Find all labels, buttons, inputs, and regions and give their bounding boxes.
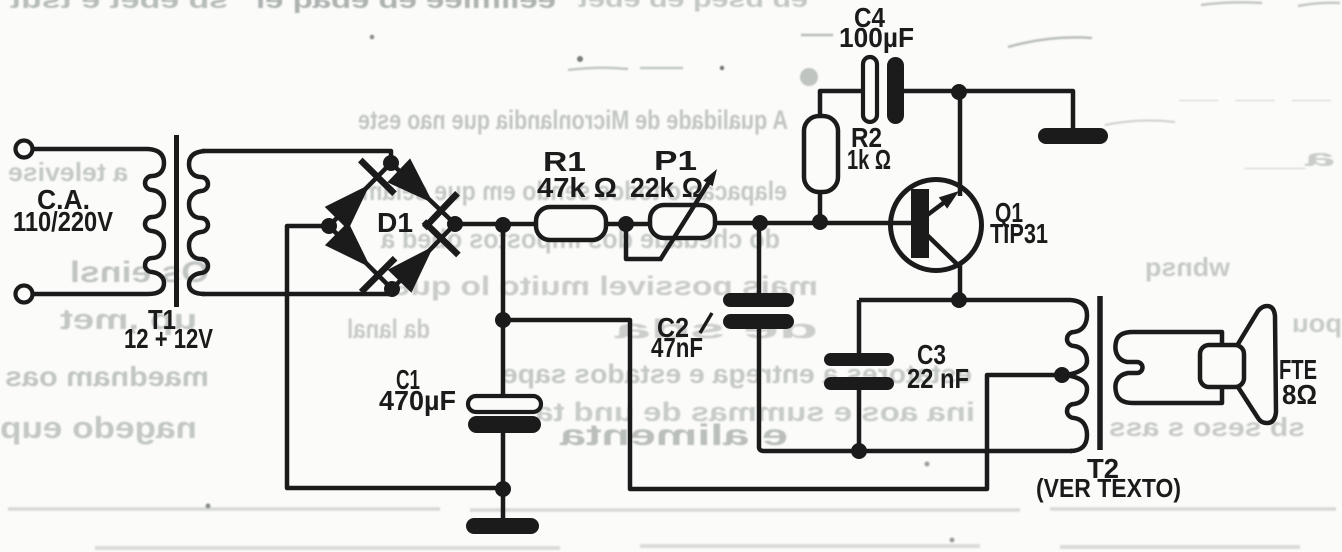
node: junction C4 / Q1 collector — [951, 84, 967, 100]
wire: R2 top lead — [820, 91, 863, 116]
node: junction C2 top — [752, 215, 768, 231]
svg-text:47nF: 47nF — [651, 332, 703, 363]
capacitor C1 plate - (solid) — [468, 416, 541, 433]
wire: T1 secondary winding — [189, 151, 208, 294]
resistor R1 body — [536, 207, 606, 240]
wire: C3 top lead — [857, 300, 862, 354]
wire: main line R1 to P1 — [605, 222, 652, 227]
svg-text:estatores a entrega e estados: estatores a entrega e estados sape — [502, 359, 972, 389]
wire: T1 secondary top to bridge top — [202, 151, 391, 160]
wire: Q1 lower lead to T2 — [958, 265, 963, 300]
svg-text:maednam oas: maednam oas — [5, 361, 209, 392]
node: junction R1/P1 wiper — [618, 216, 634, 232]
capacitor C3 plate bottom — [824, 377, 894, 390]
node: junction C3 / bottom rail — [851, 443, 867, 459]
node: T2 primary center tap — [1054, 367, 1070, 383]
wire: P1 wiper connection — [626, 224, 662, 259]
wire: C2 bottom lead + bottom rail to T2 — [759, 328, 1072, 451]
node: bridge left vertex — [321, 218, 337, 234]
svg-text:nagedo eup: nagedo eup — [0, 410, 197, 445]
transformer T2 secondary winding + leads — [1115, 332, 1222, 403]
svg-text:a televise: a televise — [8, 157, 128, 187]
svg-text:TIP31: TIP31 — [990, 218, 1048, 249]
svg-text:wbnsq: wbnsq — [1145, 252, 1231, 282]
svg-text:470µF: 470µF — [379, 385, 456, 416]
transformer T1 core — [174, 135, 179, 307]
wire: Q1 upper lead (to C4 node) — [958, 91, 963, 196]
potentiometer P1 wiper arrow — [660, 179, 711, 260]
node: bridge bottom vertex — [384, 281, 400, 297]
diode bridge D1: diode top-right — [391, 163, 455, 224]
wire: supply branch to T2 center tap — [503, 320, 1055, 489]
resistor R2 body — [804, 116, 838, 192]
svg-text:(VER TEXTO): (VER TEXTO) — [1036, 473, 1181, 503]
wire: main line P1 to Q1 base — [713, 221, 912, 226]
svg-text:pou: pou — [1292, 308, 1342, 338]
label C2 pointer slash — [700, 313, 712, 333]
wire: C1 top lead — [501, 224, 506, 397]
svg-text:_ _ _: _ _ _ — [1178, 77, 1333, 104]
node: junction feedback branch — [495, 312, 511, 328]
svg-text:A qualidade de Micronlandia qu: A qualidade de Micronlandia que nao este — [358, 105, 788, 135]
wire: bridge plus output line to R1 — [455, 222, 537, 227]
svg-text:1k Ω: 1k Ω — [847, 144, 891, 175]
svg-text:22k Ω: 22k Ω — [630, 172, 703, 203]
svg-text:e alimenta: e alimenta — [560, 419, 788, 452]
svg-text:sb ebet e tsut: sb ebet e tsut — [10, 0, 228, 14]
capacitor C2 plate top — [723, 293, 794, 307]
transistor Q1 emitter stroke w/ arrow — [926, 198, 950, 216]
wire: bridge minus to bottom-left ground rail — [287, 226, 502, 488]
wire: C3 bottom lead — [857, 390, 862, 451]
potentiometer P1 body — [650, 205, 715, 238]
transformer T2 primary winding — [959, 300, 1087, 451]
transistor Q1 base bar — [911, 189, 929, 258]
terminal: AC input bottom — [16, 286, 33, 303]
transistor Q1 body circle — [891, 180, 982, 271]
capacitor C2 plate bottom — [723, 314, 794, 329]
node: junction C1 top branch — [495, 217, 511, 233]
node: junction R2 bottom — [812, 214, 828, 230]
ground symbol (C1) — [466, 518, 539, 534]
terminal: AC input top — [16, 141, 33, 158]
node: junction C1 / ground rail — [495, 481, 511, 497]
svg-text:da lanal: da lanal — [347, 314, 430, 344]
svg-text:eb bseq eb ebet: eb bseq eb ebet — [577, 0, 808, 12]
svg-text:a__: a__ — [1244, 145, 1335, 172]
wire: C4 to chassis ground — [904, 91, 1073, 129]
ground symbol (chassis, top right) — [1038, 128, 1108, 144]
node: bridge right vertex — [447, 216, 463, 232]
svg-text:8Ω: 8Ω — [1282, 379, 1317, 410]
capacitor C3 plate top — [824, 353, 894, 366]
capacitor C4 plate - (solid) — [887, 57, 904, 124]
diode bridge D1: diode bottom-right — [392, 224, 455, 289]
svg-text:110/220V: 110/220V — [13, 206, 113, 237]
speaker FTE horn cone — [1238, 306, 1276, 423]
node: junction Q1 / C3 / T2 — [951, 292, 967, 308]
svg-text:12 + 12V: 12 + 12V — [124, 323, 213, 354]
svg-text:D1: D1 — [377, 207, 413, 238]
svg-text:eelimiee eb ebaq el: eelimiee eb ebaq el — [256, 0, 556, 14]
wire: AC top lead + T1 primary winding — [33, 149, 164, 294]
wire: Q1 output line / T2 primary top entry — [859, 298, 959, 303]
svg-text:47k Ω: 47k Ω — [537, 172, 617, 203]
diode bridge D1: diode left-bottom — [329, 226, 392, 289]
wire: C1 bottom lead to ground — [501, 432, 506, 519]
svg-text:22 nF: 22 nF — [907, 363, 969, 394]
node: bridge top vertex — [383, 155, 399, 171]
speaker FTE driver box — [1200, 345, 1244, 387]
wire: R2 bottom lead — [818, 192, 823, 222]
transistor Q1 collector stroke — [927, 235, 960, 267]
capacitor C4 plate + (outlined) — [863, 57, 877, 122]
wire: T1 secondary bottom to bridge bottom — [202, 292, 390, 297]
capacitor C1 plate + (outlined) — [468, 396, 541, 412]
wire: C2 top lead — [757, 223, 762, 294]
diode bridge D1: diode left-top — [329, 163, 391, 226]
transformer T2 core — [1097, 296, 1103, 450]
svg-text:100µF: 100µF — [839, 22, 914, 53]
